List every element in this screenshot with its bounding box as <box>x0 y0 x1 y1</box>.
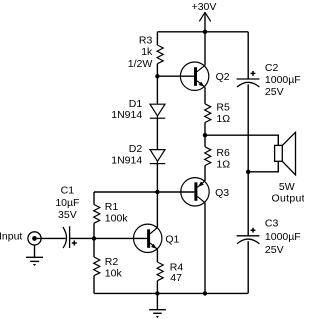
wire: +30V arrow to top rail <box>204 12 206 32</box>
svg-text:1000µF: 1000µF <box>265 231 301 243</box>
input jack terminal <box>28 232 41 245</box>
wire: bias node to Q3 base <box>94 191 194 193</box>
wire: jack to C1 <box>37 237 66 239</box>
svg-text:5W: 5W <box>279 181 295 193</box>
wire: return node to C3 <box>247 172 249 236</box>
svg-text:100k: 100k <box>105 212 129 224</box>
wire: R5 to output node <box>204 123 206 136</box>
node: R4 / ground junction on bottom rail <box>155 291 159 295</box>
svg-text:25V: 25V <box>265 86 284 98</box>
wire: C3 to bottom rail <box>247 241 249 293</box>
svg-text:1N914: 1N914 <box>111 154 142 166</box>
wire: node to D1 anode <box>156 76 158 104</box>
wire: Q2 base <box>157 75 194 77</box>
svg-text:R3: R3 <box>139 35 153 47</box>
wire: Q3 collector to bottom rail <box>204 203 206 294</box>
wire: Q2 collector <box>204 32 206 66</box>
capacitor C1 10uF <box>63 226 77 248</box>
svg-text:C3: C3 <box>265 218 279 230</box>
svg-text:10µF: 10µF <box>55 197 79 209</box>
svg-text:R1: R1 <box>105 201 119 213</box>
diode D1 1N914 <box>150 104 165 118</box>
transistor Q2 <box>180 62 208 90</box>
node: top rail junction <box>203 30 207 34</box>
wire: ground stem <box>156 293 158 309</box>
ground (input) <box>26 257 43 266</box>
svg-text:C1: C1 <box>61 185 75 197</box>
svg-text:47: 47 <box>170 272 182 284</box>
svg-text:R6: R6 <box>216 147 230 159</box>
svg-text:10k: 10k <box>105 267 123 279</box>
svg-text:1N914: 1N914 <box>111 109 142 121</box>
svg-text:C2: C2 <box>265 62 279 74</box>
resistor R5 <box>205 104 211 123</box>
node: R1 / R2 / Q1 base junction <box>92 236 96 240</box>
wire: R4 to bottom rail <box>156 281 158 294</box>
resistor R2 <box>94 257 100 276</box>
ground (main) <box>149 310 166 318</box>
svg-text:Q1: Q1 <box>165 234 179 246</box>
resistor R6 <box>205 147 211 166</box>
wire: C1 to Q1 base <box>70 237 148 239</box>
diode D2 1N914 <box>150 150 165 164</box>
resistor R3 <box>157 45 163 64</box>
node: output node (R5/R6/speaker) <box>203 133 207 137</box>
capacitor C3 1000uF <box>237 228 260 244</box>
wire: Q2 emitter to R5 <box>204 87 206 104</box>
transistor Q1 <box>134 224 162 252</box>
wire: bias node down to R1 <box>93 192 95 205</box>
svg-text:Q3: Q3 <box>215 187 229 199</box>
wire: top rail <box>157 31 248 33</box>
svg-text:Q2: Q2 <box>216 71 230 83</box>
wire: top rail to R3 <box>156 32 158 45</box>
wire: jack ground stem <box>34 245 36 257</box>
wire: D2 cathode to bias node <box>156 164 158 192</box>
wire: bias node to Q1 collector <box>156 192 158 228</box>
wire: C2 to speaker return node <box>247 84 249 171</box>
wire: base node to R2 <box>93 238 95 257</box>
node: R3 / Q2 base / D1 junction <box>155 74 159 78</box>
svg-text:R5: R5 <box>216 101 230 113</box>
+30V arrow <box>199 12 210 21</box>
wire: top rail to C2 <box>247 32 249 79</box>
svg-text:1/2W: 1/2W <box>128 58 153 70</box>
wire: R3 bottom to base node <box>156 64 158 76</box>
resistor R1 <box>94 205 100 224</box>
node: speaker return junction <box>246 170 250 174</box>
resistor R4 <box>157 262 163 281</box>
wire: speaker bottom to return node <box>248 161 278 172</box>
wire: bottom rail <box>94 292 248 294</box>
wire: output node to speaker top <box>205 135 278 145</box>
svg-text:+30V: +30V <box>192 1 217 13</box>
svg-text:D2: D2 <box>129 143 143 155</box>
svg-text:Input: Input <box>0 231 22 243</box>
wire: output node to R6 <box>204 135 206 147</box>
wire: R1 to base node <box>93 223 95 238</box>
node: D2 / R1 / Q3 base junction <box>155 190 159 194</box>
wire: Q1 emitter to R4 <box>156 249 158 262</box>
speaker LS1 <box>275 132 296 175</box>
wire: R6 to Q3 emitter <box>204 166 206 181</box>
capacitor C2 1000uF <box>237 71 260 87</box>
svg-text:35V: 35V <box>58 209 77 221</box>
transistor Q3 <box>181 178 209 206</box>
svg-text:25V: 25V <box>265 244 284 256</box>
svg-text:1k: 1k <box>141 46 153 58</box>
svg-text:1Ω: 1Ω <box>216 113 230 125</box>
wire: D1 cathode to D2 anode <box>156 118 158 149</box>
svg-text:1000µF: 1000µF <box>265 74 301 86</box>
node: Q3 collector / bottom rail junction <box>203 291 207 295</box>
svg-text:R2: R2 <box>105 256 119 268</box>
wire: R2 to bottom rail <box>93 276 95 294</box>
svg-text:1Ω: 1Ω <box>216 158 230 170</box>
svg-text:Output: Output <box>272 193 305 205</box>
